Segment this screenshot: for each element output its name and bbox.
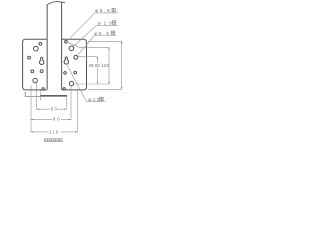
- svg-text:60: 60: [51, 107, 59, 112]
- svg-text:φ12: φ12: [88, 97, 101, 102]
- wire: ext x71: [70, 86, 72, 120]
- wire: column right edge: [61, 2, 63, 90]
- svg-text:90: 90: [53, 117, 62, 122]
- wire: leader L3 to label phi6.5 lower: [77, 36, 94, 56]
- svg-text:48 90 120: 48 90 120: [88, 63, 109, 68]
- wire: ext x31: [30, 85, 32, 132]
- wire: ext top for dim48: [78, 56, 97, 58]
- wire: leader L2 to label phi10: [73, 25, 96, 46]
- wire: ext x40.4: [39, 90, 41, 100]
- hole c4: [31, 70, 34, 73]
- wire: leader L1 to label phi6.5 top: [67, 13, 95, 41]
- hole c8: [65, 41, 68, 44]
- hole c10: [74, 55, 78, 59]
- dim 110 line: [31, 131, 49, 133]
- hole c6: [33, 78, 37, 82]
- hole c1: [39, 42, 42, 45]
- node: base bar under plate: [25, 92, 40, 97]
- hole c5: [40, 70, 43, 73]
- wire: ext x36.5: [36, 83, 38, 109]
- wire: ext top for dim120: [88, 40, 121, 42]
- svg-text:φ6.5: φ6.5: [94, 31, 110, 36]
- hole keyhole K2: [64, 57, 69, 64]
- hole c3: [28, 56, 31, 59]
- wire: ext x66.5: [66, 96, 68, 109]
- wire: leader L4 to label phi12: [67, 64, 87, 102]
- svg-text:110: 110: [49, 129, 59, 134]
- wire: ext top for dim90: [68, 42, 110, 47]
- dim 120 line: [121, 41, 123, 89]
- svg-text:φ6.5: φ6.5: [95, 8, 111, 13]
- hole c2: [34, 46, 39, 51]
- hole c7: [42, 88, 44, 90]
- label dim values 48 90 120: [88, 63, 107, 68]
- wire: column left edge: [46, 5, 48, 90]
- hole keyhole K1: [39, 57, 44, 64]
- hole c11b: [74, 71, 77, 74]
- hole c9 phi10: [69, 46, 74, 51]
- hole c12 phi12: [69, 81, 73, 85]
- wire: column break curve: [47, 2, 65, 5]
- hole c13: [63, 88, 65, 90]
- wire: ext x77.4: [76, 90, 78, 132]
- dim 90 bottom line: [31, 119, 52, 121]
- hole c11: [64, 72, 67, 75]
- caption mounting hole dims: [44, 139, 62, 142]
- dim 48 line: [97, 57, 99, 84]
- wire: ext bottom shared dim48 dim90: [75, 83, 111, 85]
- wire: ext bottom for dim120: [88, 88, 122, 90]
- node: mounting plate outline: [23, 39, 87, 90]
- dim 90 line right: [108, 47, 110, 84]
- dim 60 line: [37, 108, 50, 110]
